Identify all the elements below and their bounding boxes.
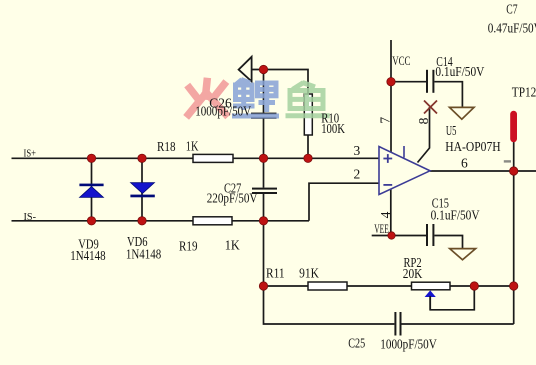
svg-text:C25: C25 [348, 336, 365, 351]
resistor R10 body [304, 94, 312, 135]
label VD6 [126, 234, 162, 261]
svg-text:IS+: IS+ [24, 147, 37, 159]
node C26-C27 top rail [259, 154, 267, 162]
svg-text:VEE: VEE [374, 222, 389, 236]
ground symbol for C14 [450, 107, 475, 119]
svg-text:HA-OP07H: HA-OP07H [445, 139, 501, 154]
label VD9 [70, 236, 106, 262]
svg-text:R18: R18 [157, 139, 176, 154]
wire top node to R10 [252, 70, 309, 95]
svg-text:U5: U5 [446, 123, 457, 138]
wire output pin6 [430, 170, 536, 172]
node VD9 top [87, 154, 95, 162]
node output [510, 167, 518, 175]
svg-text:0.1uF/50V: 0.1uF/50V [435, 64, 484, 79]
wire RP2 wiper route [430, 286, 474, 310]
op-amp U5 body [379, 146, 430, 195]
resistor R19 body [193, 217, 232, 225]
label C15 [431, 196, 480, 223]
wire bottom rail right of C25 [401, 323, 514, 325]
diode VD9 body [79, 184, 103, 198]
svg-text:1N4148: 1N4148 [70, 248, 106, 263]
svg-text:C7: C7 [506, 2, 517, 17]
label R11 [266, 266, 319, 281]
node R11 left [259, 282, 267, 290]
capacitor C14 plates [426, 70, 434, 93]
wire C26 to node [263, 119, 265, 188]
wire IS+ net top rail [12, 157, 380, 159]
wire pin8 bent lead [418, 107, 430, 163]
wire C15 to ground [434, 236, 462, 250]
wire feedback rail [264, 285, 514, 287]
label R10 [321, 111, 345, 136]
node top arrow [259, 65, 267, 73]
node R10 bottom [304, 154, 312, 162]
wire VCC to C14 [391, 81, 426, 83]
wire IS- net bottom rail [12, 220, 310, 222]
svg-text:0.1uF/50V: 0.1uF/50V [431, 207, 480, 222]
svg-text:0.47uF/50V: 0.47uF/50V [488, 20, 536, 35]
svg-text:1K: 1K [186, 139, 199, 154]
capacitor C27 plates [252, 188, 277, 194]
resistor R11 body [308, 282, 347, 290]
node C27 bottom [259, 217, 267, 225]
label R18 [157, 139, 199, 155]
svg-text:1K: 1K [225, 238, 240, 253]
svg-text:3: 3 [354, 143, 361, 158]
wire C14 to ground [434, 82, 462, 108]
no-connect X on pin 8 [424, 101, 437, 114]
potentiometer RP2 body [412, 282, 451, 310]
svg-text:4: 4 [378, 211, 393, 218]
svg-text:6: 6 [461, 156, 468, 171]
node VEE [388, 232, 395, 239]
svg-text:VCC: VCC [392, 54, 410, 68]
svg-text:R19: R19 [179, 239, 198, 254]
svg-text:1000pF/50V: 1000pF/50V [195, 104, 251, 119]
wire VD9 branch [91, 158, 93, 221]
label C14 [435, 54, 484, 79]
wire C27 down left vertical [264, 194, 395, 324]
watermark char huo [189, 82, 226, 115]
wire R10 lower lead [307, 135, 309, 158]
label C25 [348, 336, 437, 352]
capacitor C15 plates [426, 224, 434, 246]
diode VD6 body [130, 183, 154, 198]
node feedback right [510, 282, 518, 290]
node VD9 bottom [87, 217, 95, 225]
node VD6 bottom [138, 217, 146, 225]
wire top node to C26 [263, 70, 265, 113]
label U5 [445, 123, 501, 154]
node wiper [470, 282, 478, 290]
svg-text:IS-: IS- [24, 211, 37, 223]
node VD6 top [138, 154, 146, 162]
watermark char li [232, 80, 279, 117]
label C26 [195, 95, 251, 118]
ground symbol for C15 [450, 249, 476, 260]
svg-text:100K: 100K [321, 121, 345, 136]
svg-text:20K: 20K [403, 266, 423, 281]
label C27 [207, 181, 258, 206]
wire VCC to pin7 [390, 40, 392, 152]
svg-text:220pF/50V: 220pF/50V [207, 191, 258, 206]
svg-text:8: 8 [416, 117, 431, 124]
svg-text:91K: 91K [299, 266, 319, 281]
label RP2 [403, 255, 423, 281]
node VCC [387, 78, 395, 86]
svg-text:1000pF/50V: 1000pF/50V [380, 336, 437, 351]
capacitor C26 plates [251, 113, 277, 119]
capacitor C25 plates [394, 312, 401, 336]
wire pin2 route [309, 183, 379, 221]
wire output right vertical [513, 140, 515, 324]
svg-text:1N4148: 1N4148 [126, 246, 162, 261]
test point TP12 bar [510, 111, 517, 143]
svg-text:7: 7 [378, 117, 393, 124]
output minus mark [504, 160, 511, 162]
wire VD6 branch [141, 158, 143, 221]
wire pin4 lead [390, 189, 392, 236]
watermark char yu [286, 83, 330, 116]
svg-text:R11: R11 [266, 266, 285, 281]
label C7 [488, 2, 536, 36]
wire VEE to C15 [372, 235, 426, 237]
svg-text:TP12: TP12 [512, 85, 536, 100]
label R19 [179, 238, 240, 254]
resistor R18 body [193, 154, 233, 162]
svg-text:2: 2 [354, 167, 361, 182]
connector arrow top [239, 57, 252, 82]
